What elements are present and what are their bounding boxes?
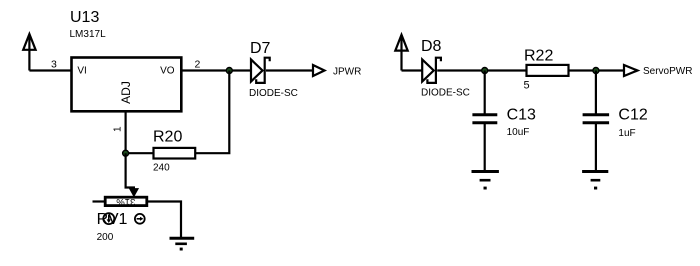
wire ADJ pin xyxy=(124,112,126,154)
value 31% (rotated 180) xyxy=(116,196,136,207)
potentiometer RV1 body xyxy=(105,197,147,205)
power symbol (right rail) xyxy=(395,35,407,71)
pin number 2 xyxy=(195,59,201,71)
pin name ADJ (rotated) xyxy=(119,81,133,104)
value DIODE-SC (D8) xyxy=(421,88,470,99)
value LM317L xyxy=(70,29,107,40)
svg-text:C13: C13 xyxy=(507,107,536,124)
value 200 xyxy=(97,232,114,243)
svg-text:LM317L: LM317L xyxy=(70,29,107,40)
svg-text:ServoPWR: ServoPWR xyxy=(643,66,692,77)
wire D7 cathode to JPWR terminal xyxy=(266,69,313,71)
pin name VO xyxy=(160,65,175,76)
ground (C13) xyxy=(472,172,499,190)
label C13 xyxy=(507,107,536,124)
RV1 adjust indicator circle (over V) xyxy=(103,213,114,224)
wire input to VI pin xyxy=(29,69,71,71)
svg-text:31%: 31% xyxy=(116,196,136,207)
junction node VO/R20/D7 xyxy=(226,68,232,74)
svg-text:R22: R22 xyxy=(524,48,553,65)
power symbol (input rail, left) xyxy=(23,34,35,71)
label R22 xyxy=(524,48,553,65)
label U13 xyxy=(70,9,99,26)
svg-text:U13: U13 xyxy=(70,9,99,26)
ground (RV1) xyxy=(170,238,195,250)
svg-text:ADJ: ADJ xyxy=(119,81,133,104)
value DIODE-SC (D7) xyxy=(249,88,298,99)
wire R22 to ServoPWR terminal xyxy=(569,69,625,71)
svg-text:C12: C12 xyxy=(618,107,647,124)
value 240 xyxy=(153,163,170,174)
svg-text:VI: VI xyxy=(77,65,86,76)
label R20 xyxy=(153,129,182,146)
capacitor C12 plates xyxy=(583,115,610,123)
svg-text:D7: D7 xyxy=(250,40,271,57)
svg-text:VO: VO xyxy=(160,65,175,76)
op-amp U13 body (LM317L regulator box) xyxy=(72,58,182,112)
pin name VI xyxy=(77,65,86,76)
svg-text:3: 3 xyxy=(51,59,57,71)
svg-text:1uF: 1uF xyxy=(618,128,635,139)
resistor R22 body xyxy=(527,65,569,76)
svg-text:D8: D8 xyxy=(421,38,442,55)
value 10uF xyxy=(507,127,530,138)
svg-text:DIODE-SC: DIODE-SC xyxy=(421,88,470,99)
svg-text:DIODE-SC: DIODE-SC xyxy=(249,88,298,99)
svg-text:JPWR: JPWR xyxy=(333,67,361,78)
svg-text:10uF: 10uF xyxy=(507,127,530,138)
resistor R20 body xyxy=(154,148,196,159)
capacitor C13 plates xyxy=(472,115,497,123)
wire VO to diode anode xyxy=(181,69,252,71)
svg-text:1: 1 xyxy=(112,126,123,132)
wiper arrow head xyxy=(130,189,139,197)
junction node D8/C13/R22 xyxy=(482,68,488,74)
value 5 xyxy=(524,80,530,92)
junction node ADJ/R20/wiper xyxy=(123,150,129,156)
diode D7 triangle xyxy=(251,60,263,82)
diode D7 schottky cathode bar xyxy=(256,58,270,83)
svg-text:200: 200 xyxy=(97,232,114,243)
label RV1 xyxy=(97,211,128,228)
svg-text:240: 240 xyxy=(153,163,170,174)
ground (C12) xyxy=(582,172,608,190)
label C12 xyxy=(618,107,647,124)
net label JPWR xyxy=(333,67,361,78)
RV1 actuator icon (circle with right arrow) xyxy=(135,214,145,224)
junction node R22/C12/ServoPWR xyxy=(593,68,599,74)
wire RV1 right terminal to ground xyxy=(147,202,181,238)
wire C13 bottom to ground xyxy=(484,124,486,171)
wire power to D8 anode xyxy=(402,69,423,71)
wire D8 cathode to R22 xyxy=(437,69,526,71)
wire C13 top xyxy=(484,71,486,115)
diode D8 schottky cathode bar xyxy=(427,58,441,83)
pin number 1 (rotated) xyxy=(112,126,123,132)
svg-text:5: 5 xyxy=(524,80,530,92)
value 1uF xyxy=(618,128,635,139)
svg-text:R20: R20 xyxy=(153,129,182,146)
pin number 3 xyxy=(51,59,57,71)
terminal arrow JPWR xyxy=(313,65,325,76)
wire wiper from ADJ node xyxy=(126,153,134,190)
wire R20 left to ADJ node xyxy=(126,152,154,154)
diode D8 triangle xyxy=(422,60,434,82)
svg-text:2: 2 xyxy=(195,59,201,71)
wire C12 top xyxy=(595,71,597,115)
RV1 left terminal stub xyxy=(93,200,106,202)
wire C12 bottom to ground xyxy=(595,124,597,171)
label D8 xyxy=(421,38,442,55)
wire node down to R20 right xyxy=(195,71,229,154)
label D7 xyxy=(250,40,271,57)
terminal arrow ServoPWR xyxy=(624,65,638,76)
net label ServoPWR xyxy=(643,66,692,77)
